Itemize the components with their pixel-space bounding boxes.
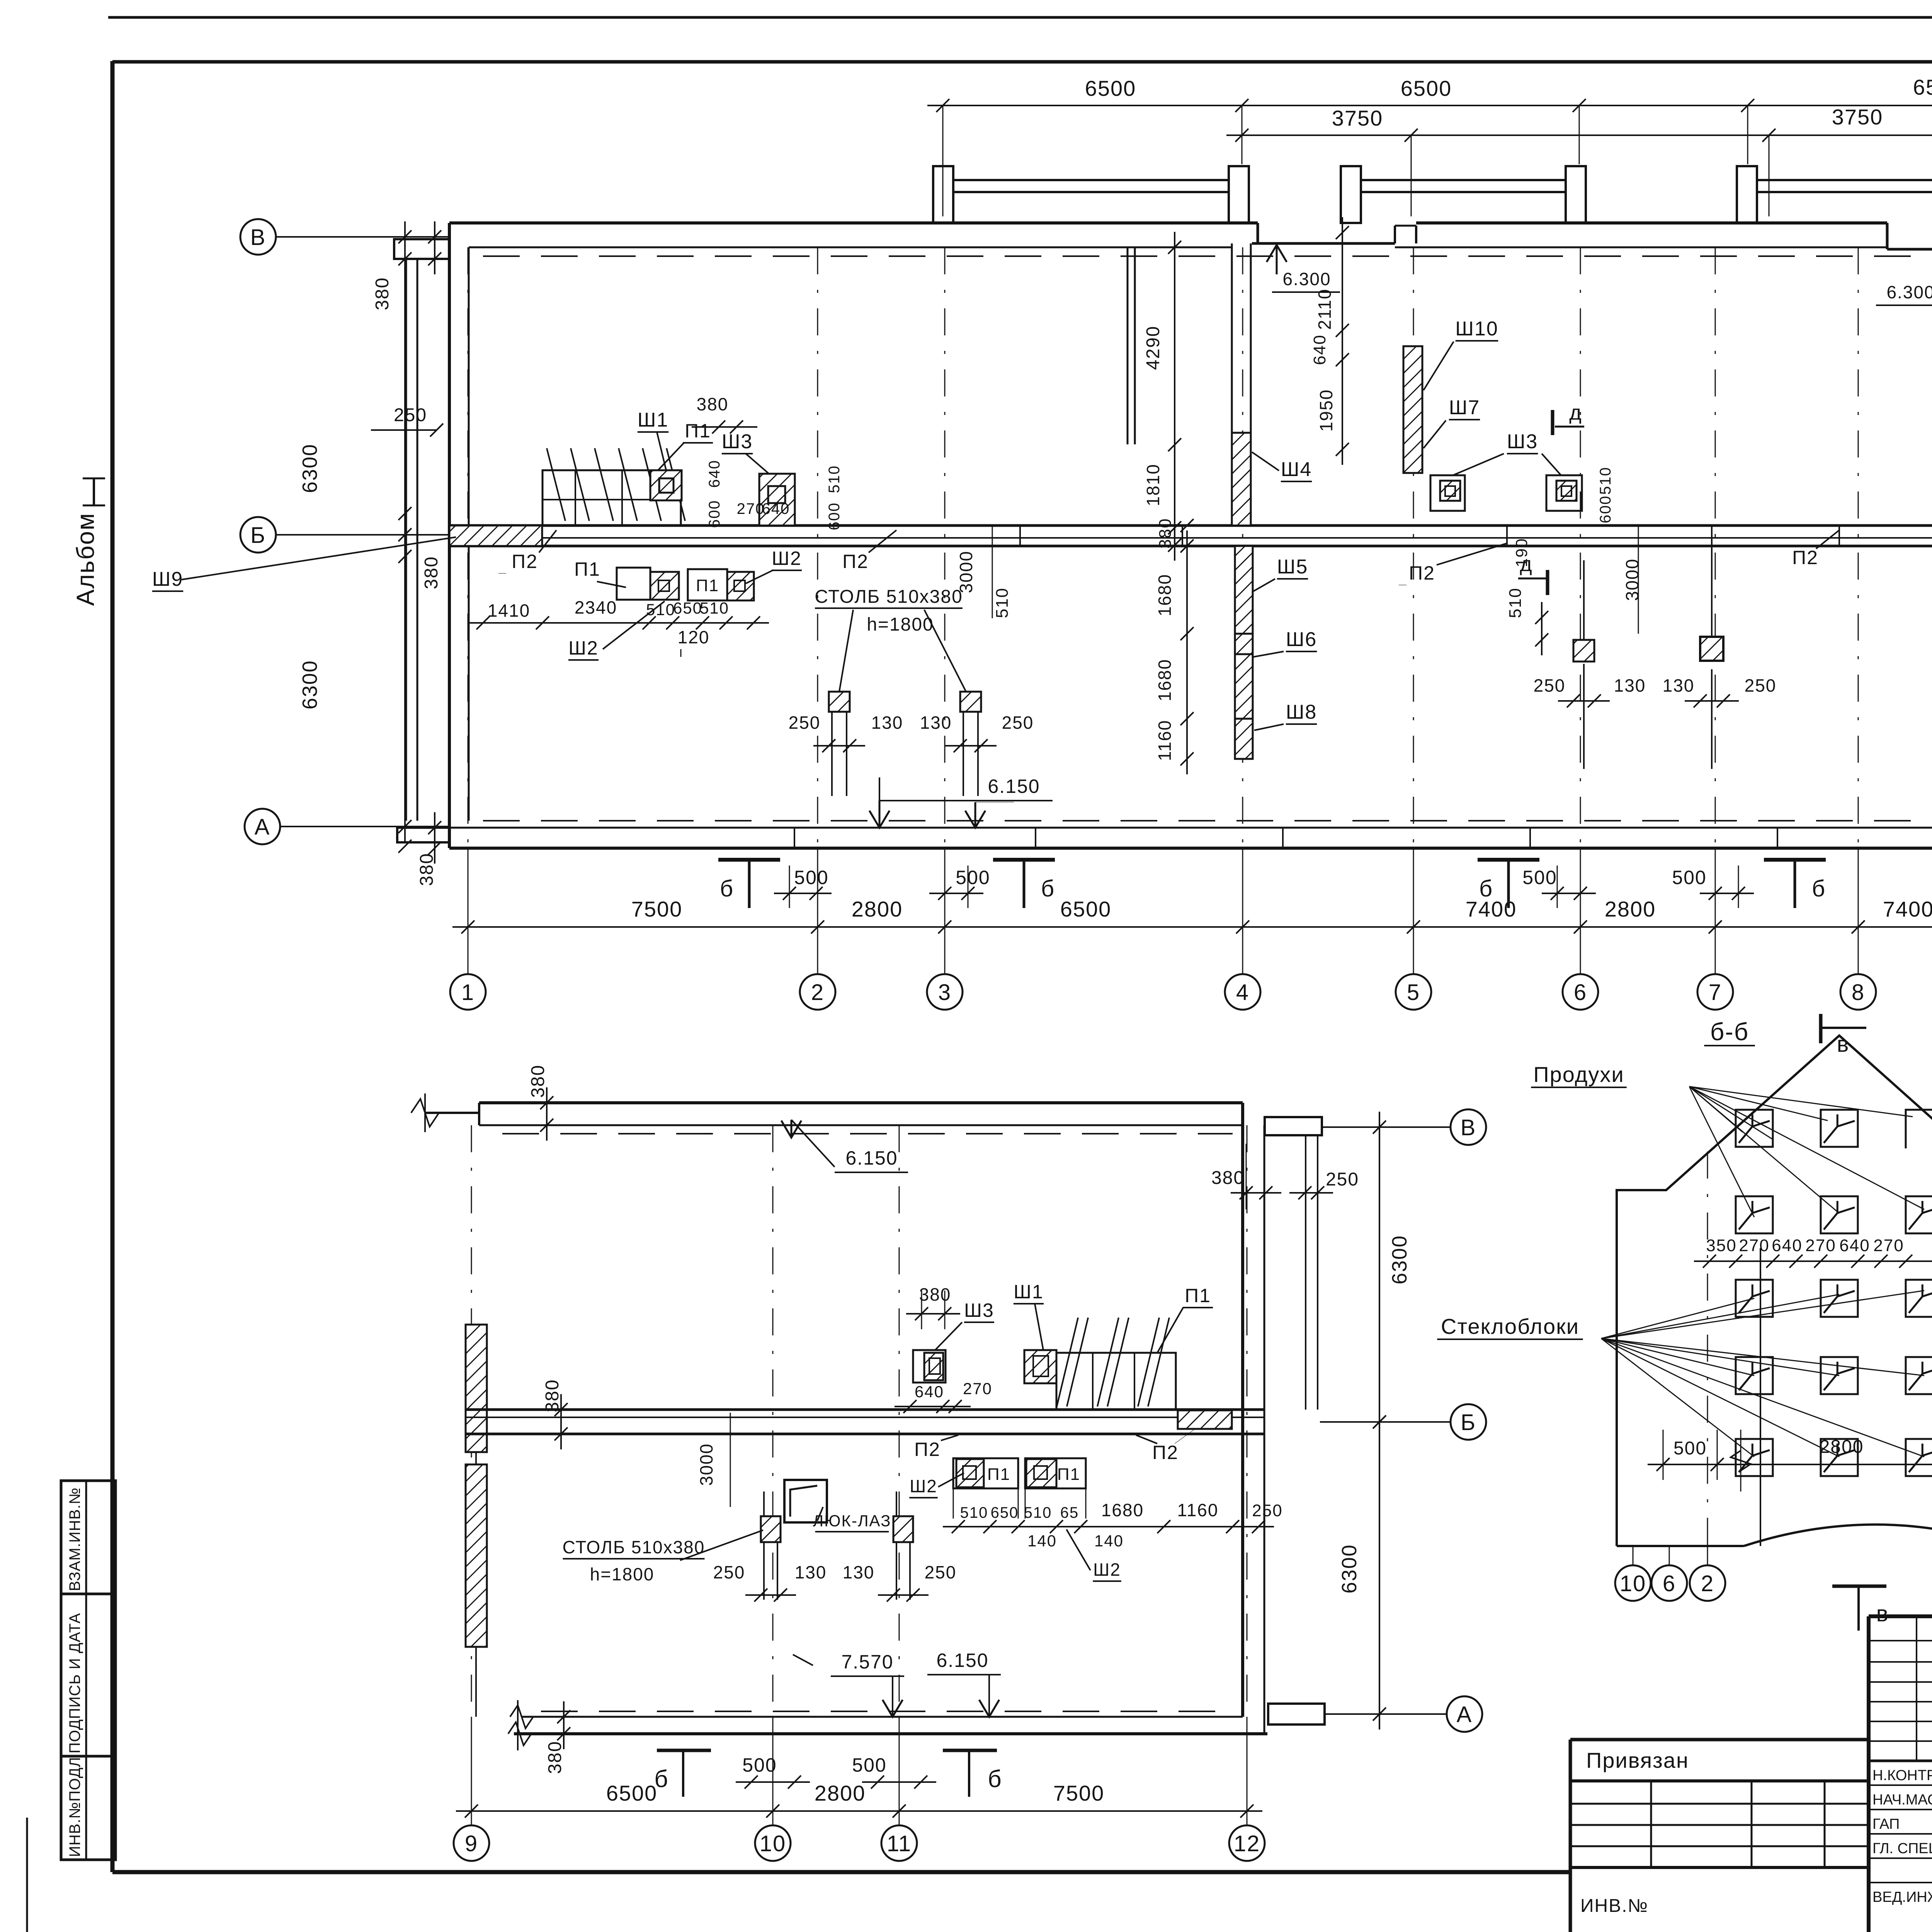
eaves dashed line below top wall [483, 255, 1932, 257]
svg-text:510: 510 [993, 587, 1012, 618]
svg-text:Б: Б [250, 523, 266, 548]
svg-text:500: 500 [1672, 867, 1706, 888]
vent block Ш3 (col2) [759, 474, 795, 526]
svg-text:6.150: 6.150 [988, 776, 1040, 797]
svg-text:П2: П2 [1792, 547, 1818, 568]
gable outline [1617, 1036, 1932, 1546]
svg-text:б: б [1812, 876, 1826, 901]
bottom wall row А (bottom plan) [522, 1716, 1243, 1718]
svg-text:Ш2: Ш2 [568, 637, 599, 659]
svg-text:2800: 2800 [1820, 1437, 1864, 1457]
svg-text:250: 250 [789, 713, 821, 733]
inner verticals [1707, 1151, 1708, 1546]
svg-text:ГЛ. СПЕЦ: ГЛ. СПЕЦ [1872, 1840, 1932, 1857]
svg-text:П2: П2 [1409, 562, 1435, 584]
title block outer [1869, 1614, 1932, 1618]
svg-text:СТОЛБ 510x380: СТОЛБ 510x380 [563, 1537, 705, 1557]
svg-text:ЛЮК-ЛАЗ: ЛЮК-ЛАЗ [813, 1512, 891, 1530]
svg-text:Ш6: Ш6 [1286, 628, 1317, 651]
svg-text:б: б [654, 1766, 669, 1793]
svg-text:3750: 3750 [1832, 105, 1883, 129]
svg-text:Ш3: Ш3 [1507, 430, 1538, 453]
svg-text:350: 350 [1706, 1236, 1736, 1255]
svg-text:6500: 6500 [606, 1781, 658, 1805]
люк-лаз [784, 1480, 827, 1522]
section marks в-в [1819, 1014, 1823, 1043]
section marks д-д [1551, 410, 1554, 435]
svg-text:510: 510 [1506, 587, 1525, 618]
svg-text:П2: П2 [842, 551, 869, 572]
svg-text:9: 9 [465, 1831, 478, 1856]
svg-text:2800: 2800 [815, 1781, 866, 1805]
section marks b-b [718, 858, 780, 862]
svg-text:140: 140 [1094, 1532, 1124, 1550]
svg-text:270: 270 [737, 500, 765, 517]
svg-text:ГАП: ГАП [1872, 1816, 1900, 1832]
top dimension lines [927, 105, 1932, 106]
svg-text:П2: П2 [914, 1439, 940, 1460]
svg-text:7400: 7400 [1883, 897, 1932, 921]
svg-text:в: в [1837, 1032, 1850, 1057]
svg-text:7: 7 [1709, 980, 1722, 1005]
svg-text:Б: Б [1461, 1410, 1476, 1435]
svg-text:3000: 3000 [956, 551, 976, 593]
svg-text:510: 510 [1597, 467, 1614, 495]
vent squares grid [1736, 1110, 1773, 1147]
svg-text:6.150: 6.150 [845, 1147, 898, 1169]
svg-text:600: 600 [826, 502, 843, 531]
svg-text:130: 130 [843, 1562, 875, 1582]
svg-text:б: б [988, 1766, 1002, 1793]
section marks б (bottom plan) [657, 1749, 711, 1752]
svg-text:500: 500 [794, 867, 828, 888]
svg-text:270: 270 [963, 1379, 992, 1398]
svg-text:1680: 1680 [1155, 574, 1175, 616]
left end wall of top plan [448, 223, 451, 848]
svg-text:130: 130 [795, 1562, 827, 1582]
brick pillars, right pair (cols 6-7) [1573, 640, 1594, 662]
svg-text:640: 640 [762, 500, 790, 517]
svg-text:130: 130 [1614, 675, 1646, 696]
svg-text:Ш2: Ш2 [1093, 1560, 1121, 1580]
svg-text:2800: 2800 [1605, 897, 1656, 921]
svg-text:600: 600 [1597, 495, 1614, 524]
svg-text:Ш1: Ш1 [1014, 1281, 1044, 1303]
svg-text:Привязан: Привязан [1586, 1748, 1689, 1772]
svg-text:Ш7: Ш7 [1449, 396, 1480, 419]
grid circles 1..9 [450, 974, 486, 1010]
svg-text:1680: 1680 [1155, 659, 1175, 701]
left vertical dimension chain [404, 221, 406, 842]
svg-text:650: 650 [991, 1504, 1019, 1521]
dim row in section [1694, 1260, 1932, 1262]
svg-text:6300: 6300 [1338, 1544, 1361, 1594]
svg-text:250: 250 [1252, 1501, 1282, 1520]
svg-text:380: 380 [528, 1065, 548, 1098]
svg-text:В: В [1461, 1115, 1476, 1140]
dim row above А (bottom plan) [943, 1526, 1274, 1527]
svg-text:250: 250 [1745, 675, 1777, 696]
svg-text:380: 380 [697, 394, 729, 414]
svg-text:11: 11 [887, 1831, 912, 1856]
svg-text:65: 65 [1060, 1504, 1079, 1521]
svg-text:130: 130 [920, 713, 952, 733]
svg-text:П1: П1 [1185, 1285, 1211, 1306]
svg-text:А: А [255, 815, 270, 840]
svg-text:Ш3: Ш3 [722, 430, 753, 453]
svg-text:8: 8 [1852, 980, 1865, 1005]
svg-text:1680: 1680 [1101, 1500, 1144, 1520]
right wall (bottom plan) [1241, 1103, 1244, 1717]
middle wall row Б (bottom plan) [466, 1408, 1264, 1411]
svg-text:2: 2 [1701, 1571, 1714, 1596]
svg-text:140: 140 [1027, 1532, 1057, 1550]
svg-text:Продухи: Продухи [1533, 1062, 1624, 1087]
svg-text:5: 5 [1407, 980, 1420, 1005]
stamp small grid [1869, 1640, 1932, 1641]
svg-text:250: 250 [394, 405, 427, 425]
svg-text:270: 270 [1805, 1236, 1836, 1255]
svg-text:380: 380 [545, 1741, 565, 1774]
top wall row В (bottom plan) [479, 1101, 1243, 1104]
entrance recess 1 [1257, 223, 1259, 243]
svg-text:510: 510 [960, 1504, 988, 1521]
svg-text:250: 250 [713, 1562, 745, 1582]
svg-text:б: б [1041, 876, 1055, 901]
svg-text:д: д [1569, 401, 1582, 424]
svg-text:380: 380 [542, 1379, 563, 1412]
middle wall row Б [449, 524, 1932, 527]
svg-text:500: 500 [852, 1754, 886, 1776]
dimension row under Б cluster [468, 622, 769, 624]
svg-text:СТОЛБ 510x380: СТОЛБ 510x380 [815, 587, 963, 607]
svg-text:510: 510 [1024, 1504, 1052, 1521]
svg-text:500: 500 [1673, 1438, 1707, 1459]
svg-text:7500: 7500 [1053, 1781, 1105, 1805]
svg-text:380: 380 [1156, 518, 1175, 548]
svg-text:6.150: 6.150 [936, 1650, 988, 1671]
left wall hatched (bottom plan) [466, 1325, 487, 1452]
svg-text:П1: П1 [574, 558, 600, 580]
svg-text:250: 250 [1326, 1169, 1359, 1190]
bottom dimension line of top plan [452, 926, 1932, 928]
svg-text:Ш3: Ш3 [964, 1299, 994, 1321]
right vertical dims (bottom plan) [1379, 1112, 1380, 1437]
row circles В Б А [240, 219, 276, 255]
svg-text:500: 500 [1522, 867, 1557, 888]
svg-text:6: 6 [1663, 1571, 1676, 1596]
slabs П1/Ш2 under wall Б [617, 568, 650, 600]
П1/Ш2 blocks under Б (bottom plan) [953, 1458, 1018, 1488]
svg-text:6.300: 6.300 [1282, 269, 1331, 289]
svg-text:Ш2: Ш2 [772, 548, 802, 569]
partition walls Ш10 / Ш7 [1403, 346, 1422, 473]
svg-text:6500: 6500 [1401, 76, 1452, 100]
svg-text:П1: П1 [685, 420, 711, 442]
grid axis lines, bottom plan [471, 1125, 472, 1717]
bottom wall row А [449, 827, 1932, 829]
bottom dims of section [1648, 1464, 1932, 1465]
svg-text:Ш9: Ш9 [152, 568, 184, 590]
top wall row В, outer face [449, 221, 1258, 224]
svg-text:ВЗАМ.ИНВ.№: ВЗАМ.ИНВ.№ [66, 1487, 83, 1591]
svg-text:П1: П1 [987, 1465, 1010, 1484]
circles 10 6 2 / 3 7 11 [1615, 1565, 1651, 1601]
svg-text:640: 640 [1839, 1236, 1870, 1255]
svg-text:2340: 2340 [575, 597, 617, 617]
svg-text:6300: 6300 [298, 444, 321, 493]
svg-text:250: 250 [925, 1562, 957, 1582]
svg-text:380: 380 [372, 277, 393, 310]
svg-text:6300: 6300 [298, 660, 321, 709]
title: left attachment table [1570, 1738, 1869, 1742]
svg-text:640: 640 [706, 460, 723, 488]
svg-text:1: 1 [461, 980, 474, 1005]
svg-text:д: д [1520, 553, 1533, 576]
svg-text:6500: 6500 [1913, 75, 1932, 99]
row circles В Б А (bottom plan) [1451, 1109, 1486, 1145]
svg-text:Стеклоблоки: Стеклоблоки [1441, 1314, 1579, 1338]
svg-text:ИНВ.№: ИНВ.№ [1580, 1896, 1648, 1916]
svg-text:640: 640 [1310, 334, 1329, 365]
interior wall stub near col3-4 [1127, 247, 1129, 444]
svg-text:3: 3 [938, 980, 951, 1005]
svg-text:250: 250 [1002, 713, 1034, 733]
roof railing bays [933, 166, 953, 223]
svg-text:6300: 6300 [1388, 1235, 1411, 1284]
svg-text:3000: 3000 [1622, 558, 1642, 601]
svg-text:Ш10: Ш10 [1455, 318, 1498, 340]
svg-text:3000: 3000 [696, 1443, 716, 1486]
stamp name rows [1869, 1784, 1932, 1786]
svg-text:Ш5: Ш5 [1277, 556, 1308, 578]
svg-text:ВЕД.ИНЖ: ВЕД.ИНЖ [1872, 1889, 1932, 1905]
svg-text:12: 12 [1234, 1831, 1260, 1856]
svg-text:П1: П1 [696, 576, 719, 595]
svg-text:380: 380 [919, 1284, 951, 1304]
svg-text:А: А [1457, 1702, 1473, 1727]
svg-text:650: 650 [673, 599, 702, 617]
drawing frame [111, 61, 115, 1872]
svg-text:130: 130 [1663, 675, 1695, 696]
svg-text:640: 640 [1772, 1236, 1802, 1255]
svg-text:2110: 2110 [1315, 289, 1335, 330]
top wall row В, inner face [469, 247, 1232, 248]
svg-text:10: 10 [1620, 1571, 1646, 1596]
svg-text:ИНВ.№ПОДЛ: ИНВ.№ПОДЛ [66, 1757, 83, 1857]
pillar pair (bottom plan) [761, 1516, 781, 1542]
bottom dims (bottom plan) [456, 1810, 1262, 1812]
svg-text:130: 130 [871, 713, 903, 733]
svg-text:640: 640 [915, 1383, 944, 1401]
svg-text:6500: 6500 [1085, 76, 1136, 100]
svg-text:П2: П2 [1152, 1442, 1179, 1463]
svg-text:б-б: б-б [1710, 1018, 1749, 1046]
svg-text:б: б [720, 876, 734, 901]
svg-text:Ш8: Ш8 [1286, 701, 1317, 723]
svg-text:500: 500 [742, 1754, 777, 1776]
grid axis lines, top plan [468, 247, 469, 848]
svg-text:В: В [250, 225, 266, 250]
vent blocks Ш3 middle [1430, 475, 1465, 511]
svg-text:1410: 1410 [488, 600, 530, 621]
svg-text:4: 4 [1236, 980, 1249, 1005]
svg-text:6.300: 6.300 [1886, 282, 1932, 302]
svg-text:Ш4: Ш4 [1281, 458, 1312, 481]
svg-text:Н.КОНТР.: Н.КОНТР. [1872, 1767, 1932, 1784]
svg-text:h=1800: h=1800 [867, 614, 934, 635]
blocks cluster (bottom plan) [913, 1350, 946, 1383]
slab П1 grid, columns 1-2 [543, 470, 681, 526]
svg-text:1160: 1160 [1155, 720, 1175, 761]
svg-text:Альбом: Альбом [71, 512, 99, 606]
svg-text:4290: 4290 [1143, 326, 1163, 370]
svg-text:270: 270 [1873, 1236, 1904, 1255]
svg-text:НАЧ.МАСТ: НАЧ.МАСТ [1872, 1792, 1932, 1808]
svg-text:510: 510 [700, 599, 729, 617]
svg-text:2800: 2800 [852, 897, 903, 921]
brick pillars 510x380 with dims, left pair [829, 692, 850, 712]
svg-text:Ш2: Ш2 [910, 1476, 937, 1496]
svg-text:7.570: 7.570 [841, 1651, 893, 1673]
svg-text:500: 500 [956, 867, 990, 888]
svg-text:510: 510 [646, 600, 675, 619]
page outer top edge line [108, 16, 1932, 19]
svg-text:б: б [1479, 876, 1493, 901]
svg-text:3750: 3750 [1332, 106, 1383, 130]
svg-text:270: 270 [1739, 1236, 1769, 1255]
svg-text:П2: П2 [512, 551, 538, 572]
svg-text:1950: 1950 [1316, 389, 1336, 432]
svg-text:600: 600 [706, 500, 723, 528]
entrance recess 2 [1886, 223, 1889, 249]
svg-text:Ш1: Ш1 [638, 409, 669, 431]
svg-text:П1: П1 [1057, 1465, 1080, 1484]
svg-text:510: 510 [826, 465, 843, 493]
svg-text:380: 380 [1211, 1168, 1245, 1188]
svg-text:в: в [1876, 1601, 1889, 1626]
partition group Ш5 Ш6 Ш8 (left of col4) [1235, 546, 1253, 654]
svg-text:ПОДПИСЬ И ДАТА: ПОДПИСЬ И ДАТА [66, 1613, 83, 1753]
svg-text:h=1800: h=1800 [590, 1564, 655, 1584]
svg-text:6: 6 [1574, 980, 1587, 1005]
svg-text:10: 10 [760, 1831, 786, 1856]
svg-text:1810: 1810 [1143, 464, 1163, 506]
svg-text:250: 250 [1534, 675, 1566, 696]
svg-text:380: 380 [421, 556, 442, 589]
partition wall Ш4 (left) [1231, 243, 1233, 526]
vent block Ш1 [650, 470, 682, 500]
svg-text:7500: 7500 [631, 897, 683, 921]
svg-text:120: 120 [678, 627, 710, 647]
svg-text:6500: 6500 [1060, 897, 1112, 921]
svg-text:1160: 1160 [1177, 1500, 1219, 1520]
svg-text:2: 2 [811, 980, 824, 1005]
left stamp boxes [61, 1481, 116, 1594]
